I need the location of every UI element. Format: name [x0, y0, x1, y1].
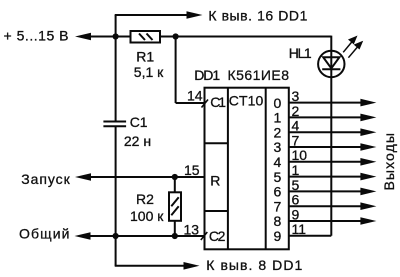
wire R2 bottom branch — [174, 221, 176, 236]
arrow to pin 8 DD1 — [184, 262, 200, 270]
arrow out 0 — [360, 99, 376, 107]
junction node at +V rail — [113, 33, 119, 39]
wire out 9 pin 11 to LED — [289, 235, 332, 237]
svg-text:11: 11 — [292, 221, 307, 237]
resistor R2 — [169, 192, 181, 221]
svg-text:3: 3 — [292, 88, 300, 104]
svg-text:5: 5 — [274, 169, 282, 185]
arrow to pin 16 DD1 — [187, 11, 203, 19]
svg-text:1: 1 — [274, 110, 282, 126]
wire out 6 pin 5 — [289, 190, 361, 192]
arrow out 3 — [360, 143, 376, 151]
svg-text:DD1: DD1 — [194, 67, 220, 83]
svg-text:15: 15 — [184, 162, 200, 178]
svg-text:10: 10 — [292, 147, 308, 163]
wire LED drop — [330, 36, 332, 236]
wire out 8 pin 9 — [289, 220, 361, 222]
svg-text:C1: C1 — [130, 114, 148, 130]
wire top rail to pin16 — [115, 15, 117, 37]
svg-text:100 к: 100 к — [130, 208, 164, 224]
svg-text:6: 6 — [274, 184, 282, 200]
arrow out 1 — [360, 114, 376, 122]
wire vertical rail to C1 — [115, 37, 117, 122]
svg-text:R2: R2 — [136, 191, 154, 207]
svg-text:C2: C2 — [209, 228, 226, 244]
arrow Zapusk — [75, 173, 91, 181]
svg-text:HL1: HL1 — [289, 45, 312, 61]
svg-text:6: 6 — [292, 192, 300, 208]
wire common (Obshchiy) to C2 — [89, 235, 205, 237]
arrow Obshchiy — [75, 232, 91, 240]
wire R2 top branch — [174, 177, 176, 192]
arrow out 5 — [360, 173, 376, 181]
svg-text:1: 1 — [292, 162, 300, 178]
output wires with arrows — [289, 103, 361, 236]
arrow out 8 — [360, 217, 376, 225]
svg-text:+ 5...15 В: + 5...15 В — [4, 28, 69, 44]
svg-text:К561ИЕ8: К561ИЕ8 — [228, 67, 290, 83]
svg-text:22 н: 22 н — [124, 133, 151, 149]
svg-text:R1: R1 — [136, 49, 154, 65]
svg-text:8: 8 — [274, 213, 282, 229]
wire out 2 pin 4 — [289, 131, 361, 133]
svg-text:2: 2 — [292, 103, 300, 119]
svg-text:14: 14 — [187, 88, 203, 104]
wire out 7 pin 6 — [289, 205, 361, 207]
wire out 1 pin 2 — [289, 116, 361, 118]
svg-text:4: 4 — [292, 118, 300, 134]
LED emission arrow 1 — [343, 37, 356, 52]
svg-text:CT10: CT10 — [229, 93, 264, 109]
svg-text:R: R — [210, 173, 220, 189]
wire out 5 pin 1 — [289, 176, 361, 178]
junction node C1 to common — [113, 233, 119, 239]
svg-text:4: 4 — [274, 154, 282, 170]
svg-text:2: 2 — [274, 124, 282, 140]
svg-text:9: 9 — [292, 206, 300, 222]
wire out 0 pin 3 — [289, 102, 361, 104]
svg-text:13: 13 — [184, 221, 200, 237]
svg-text:Общий: Общий — [19, 226, 70, 242]
svg-text:C1: C1 — [210, 94, 226, 110]
junction node R2 top — [172, 174, 178, 180]
wire common down to pin8 arrow — [115, 236, 117, 266]
svg-text:К выв. 8 DD1: К выв. 8 DD1 — [206, 257, 302, 273]
arrow +5..15V — [75, 33, 91, 41]
svg-text:Запуск: Запуск — [21, 171, 70, 187]
LED HL1 — [318, 51, 344, 77]
pin 14 dynamic input slash — [202, 100, 209, 108]
wire C1 bottom to common — [115, 126, 117, 236]
arrow out 2 — [360, 128, 376, 136]
wire out 3 pin 7 — [289, 146, 361, 148]
output digits 0-9 — [274, 95, 282, 244]
arrow out 6 — [360, 188, 376, 196]
IC DD1 body — [205, 88, 289, 250]
wire +V supply horizontal — [90, 36, 131, 38]
svg-text:9: 9 — [274, 228, 282, 244]
pin 13 dynamic input slash — [201, 232, 208, 240]
wire start (Zapusk) to R input — [90, 176, 205, 178]
svg-text:0: 0 — [274, 95, 282, 111]
svg-text:Выходы: Выходы — [381, 133, 397, 191]
svg-text:5,1 к: 5,1 к — [134, 64, 164, 80]
svg-text:7: 7 — [274, 198, 282, 214]
svg-text:5: 5 — [292, 177, 300, 193]
svg-text:3: 3 — [274, 139, 282, 155]
wire R1 right to pin14 — [175, 37, 177, 104]
svg-text:7: 7 — [292, 132, 300, 148]
wire out 4 pin 10 — [289, 161, 361, 163]
pin numbers right side — [292, 88, 308, 237]
junction node R1 right — [173, 33, 179, 39]
svg-text:К выв. 16 DD1: К выв. 16 DD1 — [208, 7, 307, 23]
arrow out 7 — [360, 202, 376, 210]
junction node R2 bottom — [172, 233, 178, 239]
LED emission arrow 2 — [348, 42, 361, 58]
capacitor C1 — [103, 122, 126, 127]
arrow out 4 — [360, 158, 376, 166]
resistor R1 — [131, 31, 161, 43]
